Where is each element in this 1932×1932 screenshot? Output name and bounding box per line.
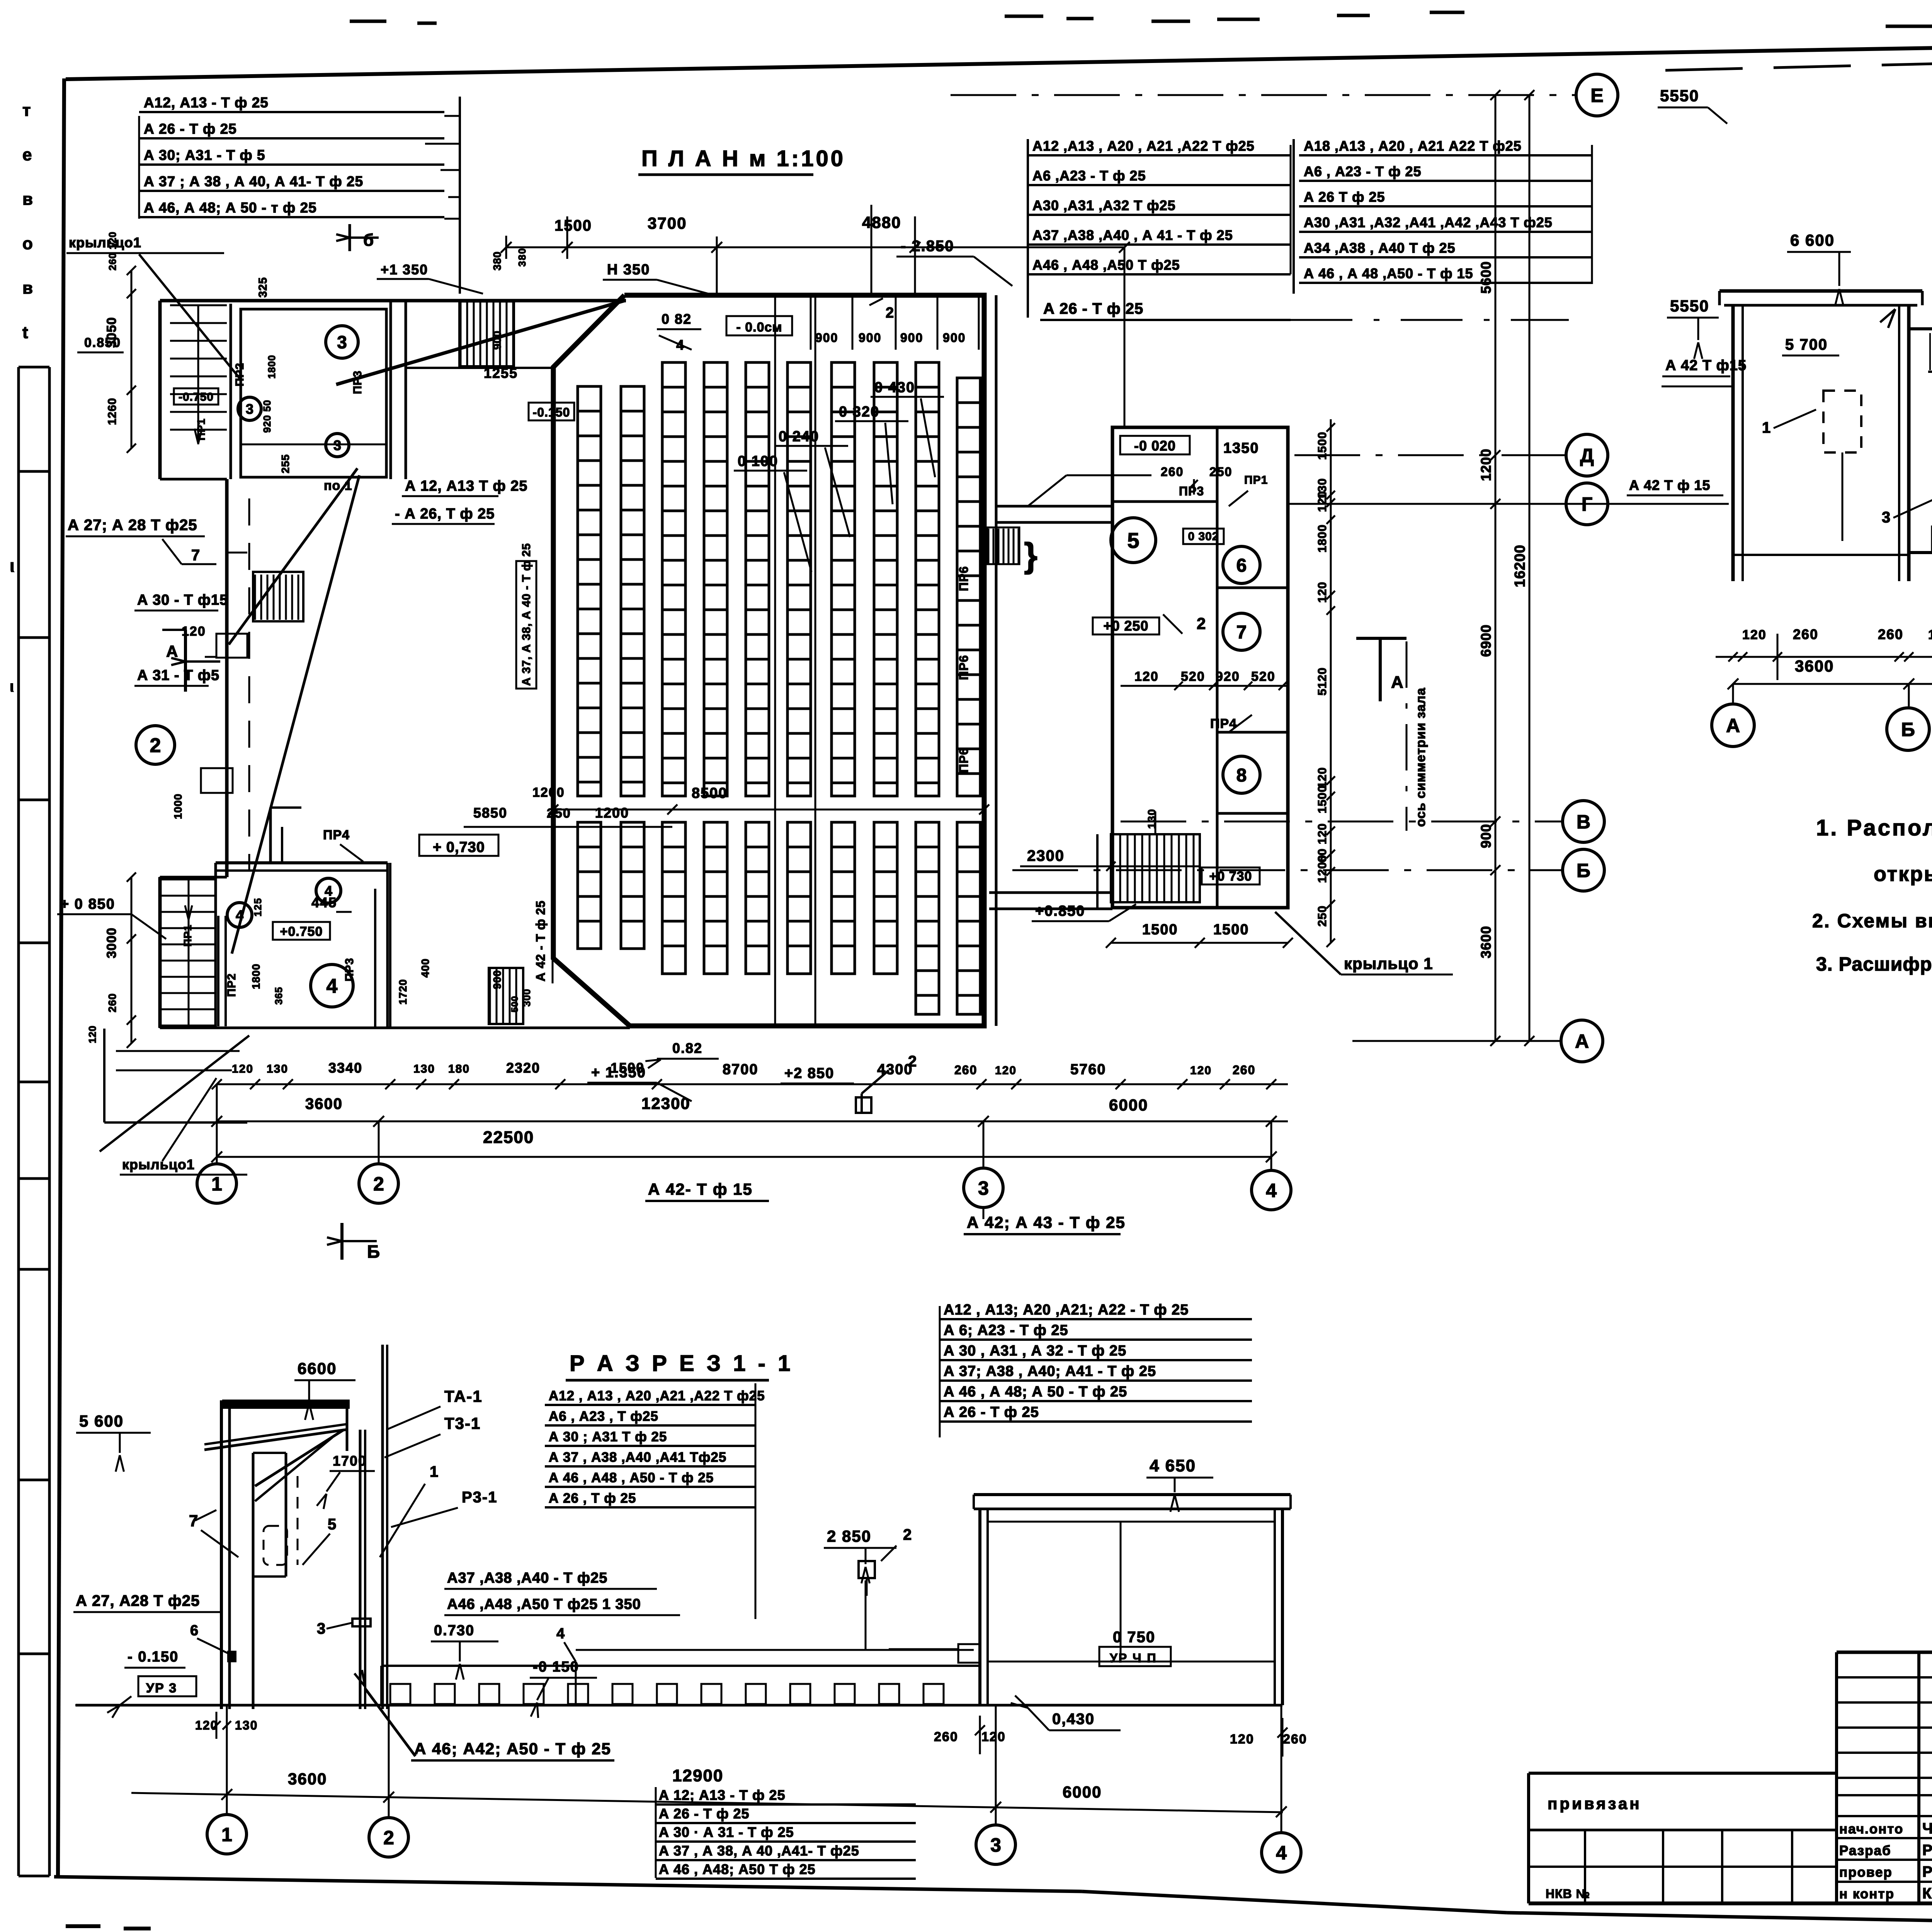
svg-text:А 42 - Т ф 25: А 42 - Т ф 25 [534, 900, 548, 981]
svg-text:130: 130 [267, 1063, 288, 1075]
svg-text:1350: 1350 [1223, 440, 1259, 456]
svg-text:120: 120 [1190, 1064, 1212, 1077]
svg-text:0 100: 0 100 [738, 453, 778, 469]
svg-text:4: 4 [556, 1626, 565, 1642]
svg-text:+0 730: +0 730 [1209, 869, 1252, 884]
svg-text:А: А [1575, 1031, 1589, 1052]
svg-text:е: е [22, 145, 32, 164]
svg-text:3600: 3600 [288, 1770, 327, 1788]
svg-text:В: В [1577, 811, 1590, 833]
svg-text:+2 850: +2 850 [784, 1065, 834, 1082]
svg-text:-0 150: -0 150 [533, 1659, 579, 1675]
svg-text:3: 3 [337, 332, 347, 352]
svg-text:1720: 1720 [397, 979, 409, 1005]
svg-text:1255: 1255 [484, 365, 518, 381]
svg-text:6: 6 [1236, 555, 1247, 576]
svg-text:Радченко: Радченко [1922, 1864, 1932, 1880]
svg-text:Н 350: Н 350 [607, 262, 650, 278]
svg-text:А6 ,А23 - Т ф 25: А6 ,А23 - Т ф 25 [1032, 168, 1146, 184]
svg-text:5850: 5850 [473, 805, 507, 821]
svg-text:А 12; А13 - Т ф 25: А 12; А13 - Т ф 25 [659, 1787, 786, 1803]
svg-text:ТА-1: ТА-1 [444, 1387, 483, 1405]
svg-text:900: 900 [859, 331, 881, 345]
svg-text:900: 900 [943, 331, 966, 345]
svg-text:ось симметрии зала: ось симметрии зала [1413, 687, 1428, 827]
svg-text:3. Расшифровку линий см. каб: 3. Расшифровку линий см. кабельный журна… [1816, 953, 1932, 975]
svg-text:ПР2: ПР2 [225, 973, 238, 997]
svg-text:120: 120 [995, 1064, 1017, 1077]
svg-text:А46 ,А48 ,А50 Т ф25 1 350: А46 ,А48 ,А50 Т ф25 1 350 [447, 1596, 641, 1612]
svg-text:4 650: 4 650 [1150, 1456, 1196, 1475]
svg-text:0 750: 0 750 [1113, 1629, 1155, 1646]
svg-text:2 850: 2 850 [827, 1527, 871, 1545]
svg-text:А 12, А13 Т ф 25: А 12, А13 Т ф 25 [405, 478, 528, 494]
svg-text:3: 3 [246, 401, 253, 417]
svg-text:ПР4: ПР4 [323, 828, 350, 842]
svg-text:+ 0 850: + 0 850 [60, 896, 115, 912]
svg-text:125: 125 [252, 898, 264, 917]
svg-text:260: 260 [934, 1730, 958, 1744]
svg-text:2320: 2320 [506, 1060, 540, 1076]
svg-text:3600: 3600 [1795, 657, 1834, 675]
svg-text:260: 260 [1161, 465, 1184, 479]
svg-text:1500: 1500 [611, 1060, 645, 1076]
svg-text:12900: 12900 [672, 1766, 723, 1785]
svg-text:А 37, А 38, А 40 - Т ф 25: А 37, А 38, А 40 - Т ф 25 [520, 543, 533, 686]
svg-text:1: 1 [211, 1173, 222, 1195]
svg-text:0 320: 0 320 [839, 404, 879, 420]
svg-text:22500: 22500 [483, 1128, 534, 1147]
svg-text:А30 ,А31 ,А32 Т ф25: А30 ,А31 ,А32 Т ф25 [1032, 197, 1176, 213]
svg-text:5: 5 [328, 1516, 337, 1533]
svg-text:380: 380 [516, 248, 528, 267]
svg-text:А 46 , А 48 ,А50 - Т ф 15: А 46 , А 48 ,А50 - Т ф 15 [1304, 265, 1473, 281]
svg-text:2: 2 [383, 1827, 394, 1849]
svg-text:180: 180 [448, 1063, 470, 1075]
svg-text:120: 120 [232, 1063, 253, 1075]
svg-text:А18 ,А13 , А20 , А21 А22 Т ф: А18 ,А13 , А20 , А21 А22 Т ф25 [1304, 138, 1522, 154]
floor plan walls [160, 299, 626, 303]
svg-text:5600: 5600 [1478, 261, 1494, 294]
svg-text:А6 , А23 , Т ф25: А6 , А23 , Т ф25 [549, 1409, 658, 1424]
svg-text:4300: 4300 [877, 1061, 913, 1078]
svg-text:4: 4 [327, 975, 338, 998]
svg-text:о: о [22, 234, 33, 253]
svg-text:-0.750: -0.750 [179, 391, 214, 403]
svg-text:А 30 - Т ф15: А 30 - Т ф15 [137, 592, 228, 608]
svg-text:ι: ι [10, 556, 15, 576]
svg-text:120: 120 [981, 1730, 1006, 1744]
svg-text:А 42; А 43 - Т ф 25: А 42; А 43 - Т ф 25 [967, 1213, 1126, 1231]
svg-text:0,430: 0,430 [1052, 1711, 1095, 1728]
svg-text:120: 120 [1315, 582, 1329, 603]
svg-text:4: 4 [1266, 1180, 1277, 1201]
svg-text:А 37 , А 38, А 40 ,А41- Т ф25: А 37 , А 38, А 40 ,А41- Т ф25 [659, 1843, 859, 1859]
svg-text:4: 4 [236, 907, 243, 923]
svg-text:- 0.0см: - 0.0см [736, 320, 782, 335]
svg-text:ПР3: ПР3 [351, 371, 364, 394]
svg-text:А 42- Т ф 15: А 42- Т ф 15 [648, 1180, 753, 1198]
svg-text:т: т [22, 101, 31, 120]
svg-text:120: 120 [1315, 767, 1329, 788]
svg-text:+1 350: +1 350 [381, 262, 428, 277]
svg-text:А 31 - Т ф5: А 31 - Т ф5 [137, 667, 219, 684]
svg-text:2. Схемы внешних соединений: 2. Схемы внешних соединений кинотехнолог… [1812, 910, 1932, 932]
svg-text:+0.850: +0.850 [1035, 903, 1085, 919]
svg-text:3: 3 [990, 1834, 1001, 1856]
svg-text:А 26 - Т ф 25: А 26 - Т ф 25 [1043, 300, 1143, 317]
svg-text:+0.750: +0.750 [280, 924, 323, 939]
svg-text:А 27, А28 Т ф25: А 27, А28 Т ф25 [76, 1592, 200, 1609]
sheet frame [66, 36, 1932, 79]
svg-text:Короткова: Короткова [1922, 1885, 1932, 1902]
svg-text:520: 520 [1251, 669, 1276, 684]
svg-text:- А 26, Т ф 25: - А 26, Т ф 25 [395, 506, 495, 522]
svg-text:2: 2 [1197, 614, 1206, 633]
svg-text:260: 260 [1233, 1063, 1255, 1077]
svg-text:ПР6: ПР6 [957, 566, 971, 591]
svg-text:920 50: 920 50 [261, 400, 273, 433]
svg-text:120: 120 [1230, 1732, 1254, 1747]
svg-text:А 30 · А 31 - Т ф 25: А 30 · А 31 - Т ф 25 [659, 1824, 794, 1840]
svg-text:А 42 Т ф 15: А 42 Т ф 15 [1629, 477, 1711, 493]
svg-text:325: 325 [257, 277, 269, 298]
svg-text:5760: 5760 [1070, 1061, 1106, 1078]
svg-text:А 26 , Т ф 25: А 26 , Т ф 25 [549, 1491, 636, 1506]
svg-text:Е: Е [1590, 85, 1603, 106]
svg-text:Разраб: Разраб [1839, 1843, 1891, 1858]
svg-text:1. Расположение и привязку: 1. Расположение и привязку оборудования … [1816, 815, 1932, 840]
svg-text:520: 520 [1181, 669, 1205, 684]
svg-text:в: в [22, 190, 33, 209]
svg-text:А 26 - Т ф 25: А 26 - Т ф 25 [144, 121, 237, 137]
svg-text:ПР1: ПР1 [182, 925, 194, 947]
svg-text:А 26 - Т ф 25: А 26 - Т ф 25 [944, 1404, 1039, 1420]
svg-text:1200: 1200 [1478, 449, 1494, 481]
svg-text:260 120: 260 120 [107, 231, 118, 270]
svg-text:6600: 6600 [298, 1359, 337, 1378]
svg-text:2: 2 [150, 735, 161, 757]
svg-text:7: 7 [191, 547, 201, 564]
svg-text:1500: 1500 [1315, 432, 1329, 460]
svg-text:0.850: 0.850 [84, 335, 121, 350]
svg-text:крыльцо1: крыльцо1 [69, 235, 141, 250]
svg-text:УР 3: УР 3 [146, 1681, 177, 1696]
svg-text:Б: Б [367, 1242, 381, 1262]
svg-text:П Л А Н м 1:100: П Л А Н м 1:100 [641, 146, 845, 171]
svg-text:3: 3 [978, 1177, 989, 1199]
svg-text:6000: 6000 [1109, 1096, 1148, 1114]
svg-text:3: 3 [333, 437, 341, 453]
svg-text:привязан: привязан [1548, 1794, 1642, 1813]
svg-text:крыльцо1: крыльцо1 [122, 1156, 195, 1172]
svg-text:в: в [22, 279, 33, 298]
svg-text:260: 260 [1878, 626, 1903, 642]
svg-text:Т3-1: Т3-1 [444, 1414, 481, 1432]
svg-text:120: 120 [1928, 628, 1932, 642]
svg-text:А 26 - Т ф 25: А 26 - Т ф 25 [659, 1806, 750, 1821]
svg-text:ι: ι [10, 678, 15, 695]
svg-text:1: 1 [1762, 419, 1771, 436]
svg-text:3000: 3000 [104, 927, 119, 958]
svg-text:А 30; А31 - Т ф 5: А 30; А31 - Т ф 5 [144, 147, 265, 163]
svg-text:А 30 , А31 , А 32 - Т ф 25: А 30 , А31 , А 32 - Т ф 25 [944, 1343, 1126, 1359]
svg-text:1200: 1200 [595, 805, 629, 821]
svg-text:1200: 1200 [532, 785, 565, 800]
bottom-left rooms [162, 879, 216, 1026]
svg-text:А12 , А13 , А20 ,А21 ,А22 Т ф2: А12 , А13 , А20 ,А21 ,А22 Т ф25 [549, 1388, 765, 1403]
svg-text:А 27; А 28 Т ф25: А 27; А 28 Т ф25 [68, 517, 197, 534]
svg-text:500: 500 [510, 996, 520, 1012]
svg-text:нач.онто: нач.онто [1839, 1821, 1903, 1837]
svg-text:А12 , А13; А20 ,А21; А22 - Т: А12 , А13; А20 ,А21; А22 - Т ф 25 [944, 1302, 1189, 1318]
svg-text:А6 , А23 - Т ф 25: А6 , А23 - Т ф 25 [1304, 163, 1422, 179]
svg-text:0 430: 0 430 [874, 379, 915, 396]
svg-text:ПР1: ПР1 [1244, 474, 1268, 486]
svg-text:Д: Д [1580, 445, 1594, 466]
svg-text:А: А [1726, 715, 1740, 736]
svg-text:6: 6 [190, 1622, 199, 1639]
svg-text:А: А [166, 642, 179, 660]
svg-text:- 2.850: - 2.850 [901, 238, 954, 255]
svg-text:1700: 1700 [333, 1453, 367, 1469]
svg-text:1500: 1500 [1142, 922, 1178, 938]
svg-text:16200: 16200 [1512, 544, 1528, 587]
title block [1835, 1652, 1838, 1903]
svg-text:3600: 3600 [1478, 926, 1494, 958]
svg-text:3700: 3700 [648, 214, 687, 232]
svg-text:А30 ,А31 ,А32 ,А41 ,А42 ,А43: А30 ,А31 ,А32 ,А41 ,А42 ,А43 Т ф25 [1304, 214, 1553, 230]
svg-text:0.82: 0.82 [672, 1040, 702, 1056]
right rooms block [1112, 427, 1288, 908]
svg-text:ПР2: ПР2 [233, 363, 246, 386]
svg-text:А 6; А23 - Т ф 25: А 6; А23 - Т ф 25 [944, 1322, 1068, 1338]
svg-text:260: 260 [1283, 1732, 1307, 1747]
svg-text:6000: 6000 [1063, 1783, 1102, 1801]
svg-text:5 700: 5 700 [1785, 336, 1828, 353]
svg-text:8500: 8500 [692, 785, 728, 801]
svg-text:ПР1: ПР1 [195, 418, 207, 440]
svg-text:А37 ,А38 ,А40 - Т ф25: А37 ,А38 ,А40 - Т ф25 [447, 1570, 607, 1586]
svg-text:А 37 ; А 38 , А 40, А 41- Т ф: А 37 ; А 38 , А 40, А 41- Т ф 25 [144, 173, 363, 189]
svg-text:0 240: 0 240 [779, 429, 819, 445]
svg-text:120: 120 [87, 1026, 98, 1043]
svg-text:3: 3 [317, 1620, 326, 1637]
svg-text:А34 ,А38 , А40 Т ф 25: А34 ,А38 , А40 Т ф 25 [1304, 240, 1456, 256]
svg-text:1: 1 [430, 1463, 439, 1480]
svg-text:-0 020: -0 020 [1134, 438, 1176, 454]
svg-text:-0.150: -0.150 [533, 405, 570, 419]
svg-text:А12, А13 - Т ф 25: А12, А13 - Т ф 25 [144, 95, 269, 111]
svg-text:А 37; А38 , А40; А41 - Т ф: А 37; А38 , А40; А41 - Т ф 25 [944, 1363, 1156, 1379]
svg-text:А 37 , А38 ,А40 ,А41 Тф25: А 37 , А38 ,А40 ,А41 Тф25 [549, 1450, 726, 1465]
svg-text:2: 2 [886, 305, 895, 321]
svg-text:б: б [363, 231, 374, 250]
svg-text:1500: 1500 [1213, 922, 1249, 938]
svg-text:3340: 3340 [328, 1060, 362, 1076]
svg-text:365: 365 [273, 987, 284, 1005]
svg-text:1260: 1260 [106, 398, 119, 425]
svg-text:А 46, А 48; А 50 - т ф 25: А 46, А 48; А 50 - т ф 25 [144, 200, 317, 216]
svg-text:ПР6: ПР6 [957, 748, 971, 773]
svg-text:5550: 5550 [1670, 297, 1709, 315]
svg-text:5550: 5550 [1660, 87, 1699, 105]
svg-text:260: 260 [1793, 626, 1818, 642]
svg-text:7: 7 [1236, 622, 1247, 643]
svg-text:900: 900 [491, 970, 503, 989]
svg-text:1000: 1000 [172, 794, 184, 819]
svg-text:4: 4 [1276, 1842, 1287, 1864]
svg-text:Черникин: Черникин [1922, 1820, 1932, 1837]
svg-text:А: А [1391, 673, 1404, 692]
svg-text:130: 130 [413, 1063, 435, 1075]
svg-text:Радченко: Радченко [1922, 1842, 1932, 1859]
svg-text:УР Ч П: УР Ч П [1110, 1651, 1157, 1665]
auditorium seat rows [578, 386, 601, 796]
svg-text:1: 1 [221, 1824, 232, 1845]
svg-text:8: 8 [1236, 765, 1247, 786]
svg-text:260: 260 [954, 1063, 977, 1077]
svg-text:А 30 ; А31 Т ф 25: А 30 ; А31 Т ф 25 [549, 1429, 667, 1444]
svg-text:2300: 2300 [1027, 847, 1065, 864]
svg-text:по 1: по 1 [324, 478, 352, 493]
svg-text:А 46 , А48; А50 Т ф 25: А 46 , А48; А50 Т ф 25 [659, 1861, 816, 1877]
svg-text:ПР6: ПР6 [957, 655, 971, 680]
svg-text:900: 900 [1478, 824, 1494, 848]
svg-text:400: 400 [419, 958, 431, 978]
svg-text:4880: 4880 [862, 213, 901, 231]
svg-text:А 42 Т ф15: А 42 Т ф15 [1665, 357, 1747, 374]
svg-text:А 26 Т ф 25: А 26 Т ф 25 [1304, 189, 1385, 205]
svg-text:А 46 , А48 , А50 - Т ф 25: А 46 , А48 , А50 - Т ф 25 [549, 1470, 714, 1485]
svg-text:3: 3 [1882, 509, 1891, 526]
svg-text:8700: 8700 [723, 1061, 759, 1078]
svg-text:900: 900 [815, 331, 838, 345]
svg-text:120: 120 [1742, 628, 1767, 642]
svg-text:0.730: 0.730 [434, 1622, 474, 1639]
svg-text:Р3-1: Р3-1 [462, 1489, 498, 1506]
svg-text:крыльцо 1: крыльцо 1 [1344, 954, 1433, 973]
svg-text:0 82: 0 82 [662, 311, 692, 327]
svg-text:120: 120 [1134, 669, 1159, 684]
svg-text:+ 0,730: + 0,730 [433, 839, 485, 855]
svg-text:3600: 3600 [305, 1095, 343, 1112]
svg-text:250: 250 [1209, 465, 1232, 479]
svg-text:Б: Б [1901, 719, 1915, 740]
svg-text:260: 260 [106, 993, 118, 1012]
plan top dimensions [506, 247, 1124, 248]
svg-text:445: 445 [311, 895, 337, 910]
svg-text:255: 255 [279, 454, 291, 473]
svg-text:920: 920 [1216, 669, 1240, 684]
svg-text:провер: провер [1839, 1865, 1893, 1880]
svg-text:6900: 6900 [1478, 624, 1494, 657]
svg-text:А37 ,А38 ,А40 , А 41 - Т ф 25: А37 ,А38 ,А40 , А 41 - Т ф 25 [1032, 227, 1233, 243]
svg-text:А46 , А48 ,А50 Т ф25: А46 , А48 ,А50 Т ф25 [1032, 257, 1180, 273]
svg-text:НКВ №: НКВ № [1546, 1887, 1590, 1901]
svg-text:900: 900 [491, 330, 503, 350]
svg-text:Б: Б [1577, 860, 1590, 881]
svg-text:1800: 1800 [1315, 524, 1329, 553]
svg-text:12300: 12300 [641, 1094, 690, 1112]
svg-text:6 600: 6 600 [1790, 231, 1835, 249]
svg-text:380: 380 [491, 251, 503, 270]
svg-text:300: 300 [521, 989, 532, 1007]
svg-text:1800: 1800 [266, 355, 277, 379]
svg-text:5120: 5120 [1315, 667, 1329, 696]
svg-text:А12 ,А13 , А20 , А21 ,А22 Т ф2: А12 ,А13 , А20 , А21 ,А22 Т ф25 [1032, 138, 1255, 154]
svg-text:0 302: 0 302 [1188, 530, 1219, 543]
svg-text:Р А З Р Е З 1 - 1: Р А З Р Е З 1 - 1 [570, 1351, 793, 1376]
svg-text:А 46; А42; А50 - Т ф 25: А 46; А42; А50 - Т ф 25 [414, 1740, 611, 1758]
svg-text:900: 900 [900, 331, 923, 345]
svg-text:1200: 1200 [1315, 855, 1329, 883]
svg-text:н контр: н контр [1839, 1886, 1895, 1901]
svg-text:5: 5 [1127, 528, 1139, 553]
svg-text:2: 2 [373, 1173, 384, 1195]
svg-text:130: 130 [235, 1718, 258, 1732]
svg-text:120: 120 [195, 1718, 218, 1732]
svg-text:7: 7 [189, 1512, 199, 1530]
svg-text:1800: 1800 [250, 964, 262, 989]
svg-text:1500: 1500 [554, 217, 592, 234]
svg-text:+0 250: +0 250 [1103, 618, 1148, 634]
svg-text:}: } [1024, 536, 1038, 575]
svg-text:ПР3: ПР3 [1179, 484, 1204, 498]
svg-text:2: 2 [903, 1526, 912, 1543]
svg-text:- 0.150: - 0.150 [128, 1649, 179, 1665]
svg-text:А 46 , А 48; А 50 - Т ф: А 46 , А 48; А 50 - Т ф 25 [944, 1384, 1127, 1400]
svg-text:t: t [22, 323, 28, 342]
svg-text:120: 120 [1315, 491, 1329, 512]
svg-text:5 600: 5 600 [79, 1412, 124, 1430]
svg-text:открытой киноплощадки см. ч: открытой киноплощадки см. черт т х к - 2 [1874, 862, 1932, 886]
